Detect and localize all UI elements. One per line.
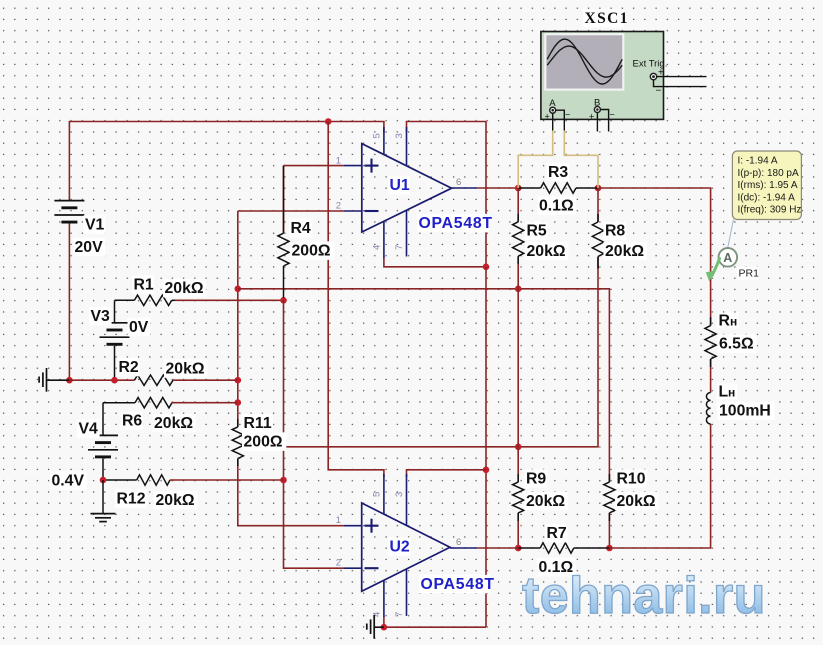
pin number U2-2 (336, 558, 341, 569)
op-amp U1 pin7 stub (n.c.) (406, 210, 408, 256)
svg-text:U2: U2 (390, 539, 410, 556)
wire long horizontal feedback rail y=288.8 to R10 top (238, 289, 610, 482)
resistor R11 200 vertical (232, 419, 243, 466)
svg-text:V4: V4 (79, 421, 99, 438)
wire horizontal rail y=446.8 to R8 bottom (284, 257, 599, 447)
svg-text:R4: R4 (291, 220, 311, 237)
pin number U2-1 (336, 515, 341, 526)
op-amp U2 minus input symbol (365, 567, 379, 569)
svg-text:I: -1.94 A: I: -1.94 A (738, 156, 778, 167)
op-amp U2 pin6 output stub (450, 547, 477, 549)
pin number U2-7 (394, 612, 405, 617)
value R4 200Ohm (290, 241, 334, 259)
ammeter probe letter A (723, 251, 732, 265)
svg-text:0.1Ω: 0.1Ω (539, 198, 574, 215)
svg-text:20V: 20V (75, 239, 104, 256)
resistor R3 0.1 (current sense top) (518, 183, 598, 193)
svg-text:5: 5 (372, 133, 383, 138)
value R12 20kOhm (154, 491, 197, 510)
svg-text:R3: R3 (548, 164, 568, 181)
measurement text line 2 (738, 168, 799, 179)
svg-text:R7: R7 (547, 525, 567, 542)
wire R8 top lead (597, 188, 599, 222)
oscilloscope terminal A (550, 107, 556, 113)
svg-text:R1: R1 (134, 277, 154, 294)
resistor R4 200 vertical (278, 166, 289, 298)
node R3 left junction (515, 185, 522, 192)
label U2 part OPA548T (419, 575, 495, 594)
leader line from measurement box to ammeter (728, 220, 734, 248)
wire R5 bottom lead (517, 256, 519, 289)
svg-text:L: L (719, 384, 729, 401)
op-amp U1 pin6 output stub (452, 187, 477, 189)
oscilloscope XSC1 body (541, 32, 664, 120)
svg-text:OPA548T: OPA548T (419, 215, 493, 232)
pin number U1-5 (372, 133, 383, 138)
op-amp U2 pin3 stub (406, 474, 408, 525)
wire R7 right node to load chain bottom (609, 424, 710, 548)
svg-text:5: 5 (372, 492, 383, 497)
svg-text:200Ω: 200Ω (292, 243, 331, 260)
svg-text:I(freq): 309 Hz: I(freq): 309 Hz (738, 205, 802, 216)
wire U1 output to R3 left node (477, 187, 519, 189)
svg-text:R: R (719, 313, 731, 330)
oscilloscope waveform trace A (547, 39, 622, 84)
measurement text line 1 (738, 156, 778, 167)
pin number U2-3 (394, 492, 405, 497)
op-amp U2 pin2 stub (344, 567, 362, 569)
label A (549, 98, 556, 109)
wire mid vertical x=283.5 R4 bottom down to U2 pin2 (284, 300, 345, 568)
wire R10 bottom lead (608, 513, 610, 548)
svg-text:R2: R2 (119, 359, 139, 376)
label R9 (525, 469, 548, 488)
wire R3 right node to load chain top (598, 188, 711, 326)
wire left vertical bus x=237.8 (pin2 to R11 top) (237, 211, 239, 427)
wire R5-R9 vertical link (517, 289, 519, 447)
svg-text:4: 4 (372, 245, 383, 250)
svg-text:2: 2 (336, 201, 341, 212)
resistor R1 20k (115, 295, 176, 305)
svg-text:+: + (589, 112, 594, 122)
svg-text:I(p-p): 180 pA: I(p-p): 180 pA (738, 168, 799, 179)
op-amp U1 plus input symbol (365, 159, 379, 173)
ground GND3 (U2 pin4) (367, 615, 384, 639)
resistor R5 20k vertical (513, 214, 524, 264)
value V4 0.4V (50, 471, 87, 490)
svg-text:6: 6 (456, 537, 461, 548)
op-amp U2 plus input symbol (365, 519, 379, 533)
wire V1 top lead and top supply rail to U1 pin 5 (69, 122, 384, 201)
op-amp U2 pin5 stub (383, 474, 385, 514)
svg-text:200Ω: 200Ω (244, 434, 283, 451)
op-amp U1 pin2 stub (344, 210, 362, 212)
wire Ext Trig minus stub (654, 80, 707, 87)
wire R5 top lead (517, 188, 519, 222)
svg-text:20kΩ: 20kΩ (527, 243, 566, 260)
value V3 0V (128, 318, 151, 337)
probe current direction green arrow (706, 259, 720, 282)
svg-text:7: 7 (394, 612, 405, 617)
svg-text:R12: R12 (117, 491, 146, 508)
svg-text:R8: R8 (605, 223, 625, 240)
node R9 top junction (515, 444, 522, 451)
label Ext Trig minus (656, 86, 662, 97)
value R8 20kOhm (604, 242, 647, 260)
label U1 part OPA548T (417, 214, 493, 233)
oscilloscope terminal A leads (553, 110, 565, 130)
node R4 bottom junction (280, 297, 287, 304)
svg-text:PR1: PR1 (739, 268, 760, 280)
oscilloscope terminal B (594, 107, 600, 113)
node bus/long-horizontal junction (235, 286, 242, 293)
pin number U2-5 (372, 492, 383, 497)
label Lh (717, 384, 737, 401)
resistor R8 20k vertical (592, 214, 603, 269)
ground GND2 (below V4) (91, 514, 116, 522)
ground GND1 (left) (39, 368, 69, 392)
svg-text:R6: R6 (122, 413, 142, 430)
node U2 pin4 ground junction (381, 624, 388, 631)
node R10 bottom junction (606, 545, 613, 552)
label U1 (388, 176, 410, 195)
svg-text:tehnari.ru: tehnari.ru (522, 567, 766, 625)
probe wire scope A- to R3 right node (564, 131, 598, 189)
value Rh 6.5Ohm (718, 334, 757, 353)
svg-text:6: 6 (456, 177, 461, 188)
label V3 (89, 307, 112, 326)
svg-text:3: 3 (394, 133, 405, 138)
value R3 0.1Ohm (538, 196, 577, 215)
pin number U1-4 (372, 245, 383, 250)
node U2 top loop junction (483, 467, 490, 474)
label B (594, 98, 600, 109)
svg-text:B: B (594, 98, 600, 109)
label R4 (289, 219, 312, 238)
resistor R7 0.1 (current sense bottom) (518, 543, 609, 553)
probe wire scope A+ to R3 left node (518, 131, 553, 189)
value R9 20kOhm (525, 492, 568, 511)
wire U2 pin3 loop (407, 470, 487, 477)
wire long vertical x=486 from U1 bottom to U2 bottom loop (485, 267, 487, 627)
value R11 200Ohm (242, 432, 286, 451)
pin number U2-6 (456, 537, 461, 548)
wire U1 pin1 input from R4 top corner (284, 165, 345, 167)
svg-text:R5: R5 (527, 223, 547, 240)
svg-text:100mH: 100mH (719, 403, 771, 420)
watermark tehnari.ru (522, 567, 766, 625)
svg-text:7: 7 (394, 245, 405, 250)
op-amp U2 pin1 stub (344, 525, 362, 527)
node U1 bottom loop junction (483, 264, 490, 271)
wire Ext Trig plus stub (657, 76, 707, 78)
wire U1 pin3 loop to right vertical down U1 output side (407, 122, 487, 267)
resistor R10 20k vertical (604, 474, 615, 521)
svg-text:20kΩ: 20kΩ (605, 243, 644, 260)
op-amp U1 minus input symbol (365, 210, 379, 212)
svg-text:1: 1 (336, 515, 341, 526)
svg-text:I(dc): -1.94 A: I(dc): -1.94 A (738, 192, 796, 203)
label R10 (615, 469, 647, 488)
value R1 20kOhm (163, 279, 206, 298)
label U2 (388, 537, 411, 556)
value Lh 100mH (718, 401, 775, 420)
measurement text line 4 (738, 192, 796, 203)
pin number U1-3 (394, 133, 405, 138)
measurement box PR1 readings (732, 151, 801, 220)
wire V4 to ground (102, 480, 104, 514)
label Ext Trig plus (658, 68, 664, 79)
label R3 (547, 163, 570, 182)
svg-text:20kΩ: 20kΩ (617, 493, 656, 510)
value R5 20kOhm (525, 242, 568, 260)
svg-text:U1: U1 (390, 177, 410, 194)
op-amp U1 pin1 stub (344, 165, 362, 167)
node R3 right junction (595, 185, 602, 192)
op-amp U1 pin3 stub (406, 127, 408, 166)
svg-text:V1: V1 (85, 217, 105, 234)
oscilloscope screen (545, 34, 623, 89)
battery V4 (88, 403, 118, 480)
label R5 (525, 221, 548, 240)
svg-text:−: − (565, 110, 570, 120)
pin number U1-1 (336, 156, 341, 167)
label XSC1 (583, 9, 629, 27)
node bus/R2 junction (235, 377, 242, 384)
node V1/ground/R2 junction (66, 377, 73, 384)
oscilloscope terminal B leads (597, 110, 608, 132)
svg-text:6.5Ω: 6.5Ω (719, 336, 754, 353)
node R5 bottom junction (515, 286, 522, 293)
svg-text:н: н (728, 386, 735, 400)
value R6 20kOhm (153, 414, 196, 433)
node V4 bottom junction (100, 477, 107, 484)
resistor Rh load 6.5 (705, 317, 716, 367)
svg-text:−: − (610, 110, 615, 120)
op-amp U1 pin5 stub (383, 127, 385, 155)
svg-text:0.4V: 0.4V (52, 473, 85, 490)
svg-text:4: 4 (372, 612, 383, 617)
svg-text:20kΩ: 20kΩ (154, 415, 193, 432)
label R7 (545, 524, 568, 543)
svg-text:20kΩ: 20kΩ (526, 493, 565, 510)
label PR1 (737, 267, 759, 280)
op-amp U1 triangle (362, 144, 452, 232)
battery V3 (100, 300, 130, 380)
label A minus (565, 110, 570, 120)
svg-text:20kΩ: 20kΩ (166, 361, 205, 378)
svg-text:XSC1: XSC1 (585, 10, 629, 27)
measurement text line 5 (738, 205, 802, 216)
svg-text:A: A (549, 98, 556, 109)
wire R1 output to R4 bottom node (175, 299, 284, 301)
node bus/R6 junction (235, 399, 242, 406)
wire U2 output to R7 left node (477, 547, 519, 549)
value V1 20V (73, 238, 105, 256)
svg-text:V3: V3 (91, 308, 111, 325)
svg-text:OPA548T: OPA548T (421, 576, 495, 593)
label R8 (604, 221, 627, 240)
svg-text:1: 1 (336, 156, 341, 167)
wire R9 bottom lead (517, 513, 519, 548)
op-amp U2 triangle (362, 503, 450, 591)
resistor R12 20k (103, 475, 284, 485)
oscilloscope waveform trace B (547, 46, 622, 77)
svg-text:20kΩ: 20kΩ (156, 492, 195, 509)
op-amp U1 pin4 stub (383, 221, 385, 258)
svg-text:н: н (730, 315, 737, 329)
measurement text line 3 (738, 180, 798, 191)
wire load chain middle (Rh to Lh) (710, 359, 712, 393)
node mid-vertical / R12 junction (280, 477, 287, 484)
svg-text:2: 2 (336, 558, 341, 569)
value R10 20kOhm (615, 492, 658, 511)
svg-text:0V: 0V (129, 319, 149, 336)
node V3 bottom junction (111, 377, 118, 384)
wire R9 top lead (517, 447, 519, 482)
wire left vertical bus below R11 to U2 pin1 (238, 459, 344, 526)
svg-text:A: A (723, 251, 732, 265)
label A plus (545, 112, 550, 122)
wire U1 pin2 input from left vertical (238, 210, 344, 212)
label Ext Trig (633, 59, 668, 70)
oscilloscope Ext Trig terminal (650, 73, 656, 79)
label V4 (77, 419, 100, 438)
node mid-vertical / y447 rail junction (280, 444, 287, 451)
battery V1 (54, 201, 84, 223)
wire vertical rail from top junction down to U2 pin 5 loop (328, 122, 384, 478)
value R7 0.1Ohm (537, 558, 576, 577)
op-amp U2 pin7 stub (n.c.) (406, 569, 408, 616)
pin number U1-2 (336, 201, 341, 212)
label R11 (242, 414, 273, 433)
label Rh (717, 313, 739, 330)
pin number U2-4 (372, 612, 383, 617)
wire U1 bottom pin4 to bottom-left corner of loop (384, 258, 486, 267)
svg-text:R10: R10 (617, 471, 646, 488)
svg-text:+: + (545, 112, 550, 122)
svg-text:20kΩ: 20kΩ (165, 280, 204, 297)
svg-text:R11: R11 (244, 415, 272, 432)
wire U2 pin4 to ground rail corner (384, 617, 486, 628)
ammeter probe PR1 circle (719, 248, 738, 267)
wire R4 top lead from pin1 wire (283, 166, 285, 234)
wire V1 bottom lead down to ground node (68, 224, 70, 381)
label R1 (132, 275, 154, 294)
label R2 (117, 358, 140, 377)
inductor Lh 100mH (706, 393, 710, 424)
svg-text:I(rms): 1.95 A: I(rms): 1.95 A (738, 180, 798, 191)
node junction top rail / vertical feed (325, 118, 332, 125)
pin number U1-6 (456, 177, 461, 188)
label R6 (121, 411, 144, 430)
pin number U1-7 (394, 245, 405, 250)
label V1 (84, 215, 106, 234)
label B plus (589, 112, 594, 122)
svg-text:3: 3 (394, 492, 405, 497)
label R12 (115, 489, 147, 508)
svg-text:R9: R9 (526, 471, 546, 488)
resistor R9 20k vertical (513, 474, 524, 521)
label B minus (610, 110, 615, 120)
node R9 bottom junction (515, 545, 522, 552)
resistor R2 20k (69, 375, 237, 385)
op-amp U2 pin4 stub (383, 580, 385, 617)
value R2 20kOhm (164, 359, 207, 378)
resistor R6 20k (103, 398, 238, 408)
